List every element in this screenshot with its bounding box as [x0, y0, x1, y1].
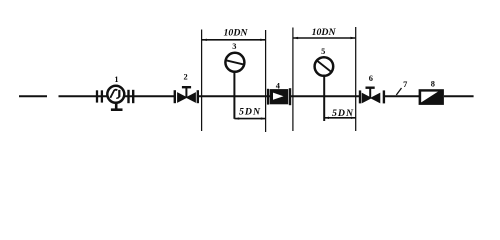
orifice device 4: black box with white triangle: [270, 89, 289, 104]
flow meter 1: support stem and base: [115, 103, 118, 109]
svg-text:5: 5: [321, 47, 325, 56]
gauge 3: stem: [233, 72, 235, 119]
gauge 3: circle: [225, 53, 244, 72]
dimension span 2: 5DN dimension line with arrows: [324, 117, 356, 119]
svg-text:5DN: 5DN: [239, 106, 261, 117]
dimension span 1: right extension line: [265, 30, 267, 132]
svg-text:10DN: 10DN: [224, 28, 249, 39]
wire: pipe segment to meter 1: [59, 95, 108, 97]
flow meter 1: left union flange bars: [96, 90, 98, 102]
valve 6: T handle: [369, 88, 371, 98]
svg-text:10DN: 10DN: [312, 27, 337, 38]
svg-text:8: 8: [431, 79, 435, 88]
gauge 5: diagonal chord: [317, 61, 330, 72]
orifice device 4: right flange bar: [289, 88, 291, 105]
valve 2: T handle: [185, 88, 187, 98]
valve 2: bowtie body: [178, 93, 196, 102]
rotameter 8: black box with white diagonal triangle: [419, 89, 444, 105]
dimension span 2: left extension line: [292, 28, 294, 132]
svg-text:1: 1: [114, 75, 118, 84]
label 7 with leader line: [396, 88, 401, 95]
wire: pipe meter 1 to valve 2: [124, 95, 175, 97]
dimension span 1: left extension line: [201, 30, 203, 132]
flow meter 1: circle body: [107, 86, 124, 103]
dimension span 2: right extension line: [355, 27, 357, 131]
wire: left broken pipe dash: [19, 95, 47, 97]
dimension span 1: 10DN dimension line with arrows: [202, 39, 265, 41]
valve 6: right flange bar: [383, 90, 385, 103]
dimension span 1: 5DN dimension line with arrows: [234, 118, 265, 120]
svg-text:3: 3: [232, 42, 236, 51]
gauge 5: circle: [315, 57, 334, 76]
svg-text:6: 6: [369, 74, 373, 83]
flow meter 1: inner U mark: [110, 90, 117, 98]
gauge 3: diagonal chord: [226, 60, 244, 64]
gauge 5: stem: [323, 76, 325, 121]
wire: pipe valve 2 to orifice 4: [199, 95, 271, 97]
valve 6: bowtie body: [362, 93, 380, 102]
wire: pipe right end: [444, 95, 474, 97]
valve 2: left flange bar: [174, 90, 176, 103]
wire: pipe valve 6 to rotameter 8: [385, 95, 420, 97]
orifice device 4: left flange bar: [267, 89, 269, 105]
valve 6: left flange bar: [359, 90, 361, 103]
svg-text:7: 7: [403, 80, 407, 89]
flow meter 1: right union flange bars: [127, 90, 129, 103]
valve 2: right flange bar: [197, 90, 199, 103]
svg-text:2: 2: [184, 73, 188, 82]
dimension span 2: 10DN dimension line with arrows: [293, 37, 355, 39]
wire: pipe orifice 4 to valve 6: [291, 95, 360, 97]
svg-text:5DN: 5DN: [332, 108, 354, 119]
